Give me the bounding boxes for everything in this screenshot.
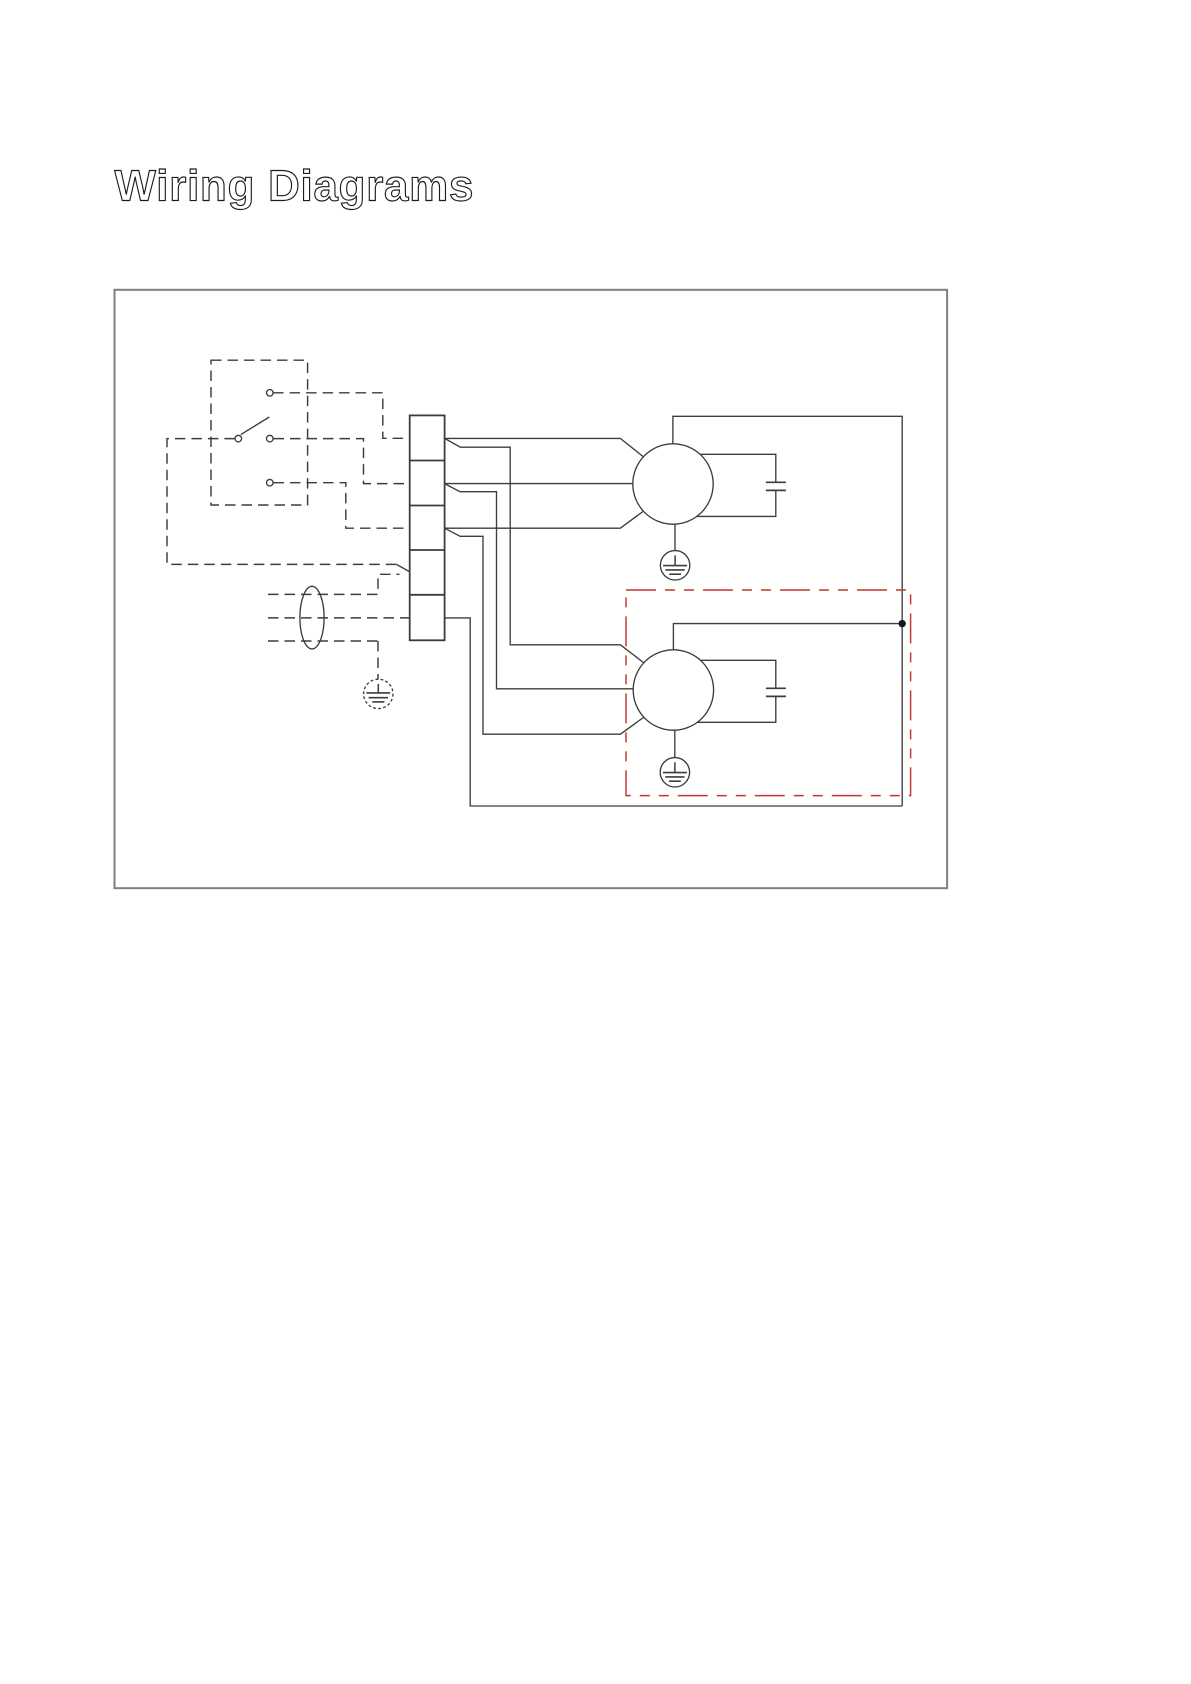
- border frame: [115, 290, 948, 888]
- wire: left dashed loop from switch pivot to terminal 4: [167, 439, 397, 565]
- switch blade: [241, 417, 269, 435]
- wire: terminal 1 to motor M2: [445, 438, 644, 662]
- junction node: [899, 620, 906, 627]
- wire: terminal 2 to motor M2: [445, 484, 634, 689]
- wire: cable lead C (dashed) to earth: [268, 641, 378, 679]
- cable grommet ellipse: [300, 586, 324, 649]
- wire: motor M2 top to junction: [673, 624, 902, 650]
- motor M2: [633, 650, 713, 730]
- wire: dashed contact2 to terminal 2: [274, 439, 410, 484]
- capacitor C2 plates: [766, 688, 786, 696]
- wire: solid lead-in to terminal 4: [397, 564, 411, 572]
- wire: dashed contact3 to terminal 3: [274, 483, 410, 529]
- wire: cable lead B (dashed) to terminal 5: [268, 617, 410, 619]
- red phantom enclosure (motor M2 unit): [626, 590, 911, 796]
- earth ground (cable shield, dashed circle): [364, 679, 393, 708]
- motor M1: [633, 444, 713, 524]
- capacitor C1 plates: [766, 482, 786, 490]
- switch pivot contact: [235, 435, 242, 442]
- wire: terminal 1 to motor M1: [445, 438, 643, 456]
- switch contact 3: [267, 479, 274, 486]
- wire: terminal 3 to motor M2: [445, 528, 644, 734]
- capacitor C2 loop wires: [697, 660, 776, 722]
- ground symbol below M2: [660, 730, 689, 787]
- wire: terminal 3 to motor M1: [445, 512, 643, 529]
- terminal block TB1: [410, 415, 445, 640]
- capacitor C1 loop wires: [697, 454, 776, 516]
- wire: terminal 5 bottom return loop: [445, 618, 903, 806]
- switch enclosure (dashed box): [211, 360, 308, 505]
- switch contact 1: [267, 390, 274, 397]
- wire: motor M1 top to right bus: [673, 416, 902, 806]
- switch contact 2: [267, 435, 274, 442]
- svg-text:Wiring Diagrams: Wiring Diagrams: [115, 162, 475, 211]
- wire: cable lead A (dashed) to terminal 4: [268, 574, 400, 594]
- ground symbol below M1: [660, 524, 689, 580]
- wire: terminal 2 to motor M1: [445, 483, 634, 485]
- wire: dashed contact1 to terminal 1: [273, 393, 410, 439]
